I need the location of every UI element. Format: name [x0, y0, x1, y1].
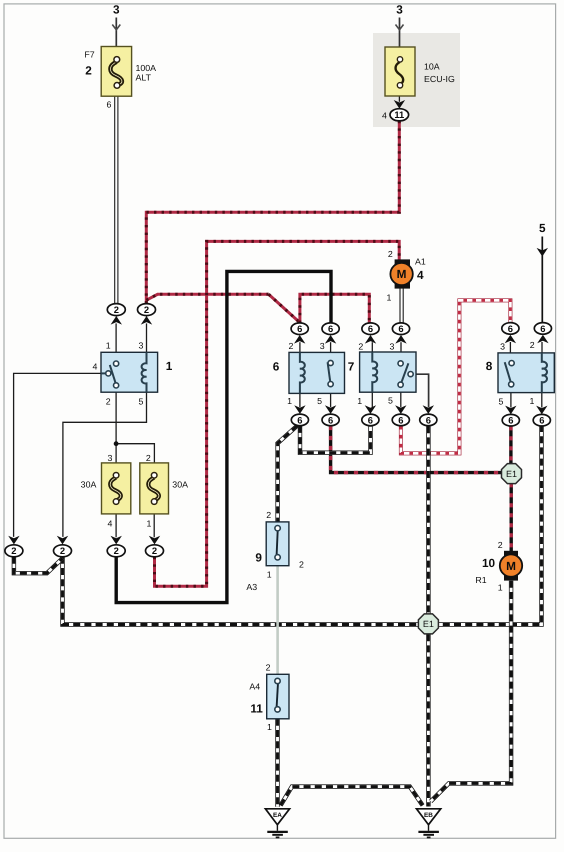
wire: 30A fuse internal stems	[115, 463, 117, 473]
ground E1 (upper)	[502, 464, 522, 484]
wire: black-white dashed between relay 6 and relay 7 connectors	[300, 426, 371, 453]
wire: feed 3 into fuse ECU-IG	[399, 18, 401, 48]
arrow into connector 11	[394, 100, 405, 109]
svg-text:E1: E1	[423, 619, 434, 629]
connector 6 above relay 8 pin 2	[534, 323, 551, 344]
svg-text:1: 1	[267, 722, 272, 732]
connector 6 below relay 8 pin 5	[502, 406, 519, 426]
svg-text:1: 1	[529, 396, 534, 406]
svg-text:3: 3	[500, 341, 505, 351]
fuse F7 (100A ALT)	[101, 47, 131, 97]
svg-text:3: 3	[396, 3, 403, 17]
wire: black-white dashed from switch A4 pin 1 to ground EA	[277, 719, 279, 807]
connector 6 below relay 7 side pin	[420, 405, 437, 425]
wire: relay 1 pin 5 to connector 2	[63, 392, 147, 537]
wire: red-white striped from relay 7 connector to relay 8 connector	[401, 300, 511, 453]
wire: black from 30A fuse connector 2 to relay 6 connector 6	[116, 271, 331, 602]
wire: relay 1 pin 2 to 30A fuses	[115, 392, 117, 463]
wire: black-white dashed link between connectors 2	[14, 557, 63, 573]
svg-text:1: 1	[146, 518, 151, 528]
svg-text:5: 5	[539, 221, 546, 235]
relay 7	[360, 352, 416, 392]
svg-text:A3: A3	[246, 582, 257, 592]
svg-text:EA: EA	[273, 812, 282, 819]
wire: relay internal pin stubs	[115, 352, 117, 361]
connector 6 below relay 6 pin 1	[291, 405, 308, 425]
wire: relay 6 pin stems	[299, 342, 301, 352]
svg-text:6: 6	[540, 323, 545, 334]
ground E1 (lower)	[418, 614, 438, 634]
relay 1	[101, 352, 158, 392]
svg-text:3: 3	[390, 341, 395, 351]
svg-text:2: 2	[11, 545, 16, 556]
connector 2 above relay 1 pin 1	[107, 304, 125, 325]
svg-text:6: 6	[297, 414, 302, 425]
connector 6 below relay 8 pin 1	[533, 406, 550, 426]
svg-text:6: 6	[368, 414, 373, 425]
svg-text:6: 6	[508, 415, 513, 426]
wire: black-white dashed from relay 6 connector to switch A3 pin 2	[278, 426, 298, 522]
connector 11	[390, 109, 409, 121]
wire: relay 7 side pin to connector 6	[413, 374, 428, 407]
wire: fuse F7 internal stems	[116, 47, 118, 58]
svg-text:5: 5	[498, 396, 503, 406]
svg-text:2: 2	[114, 304, 119, 315]
svg-text:2: 2	[358, 341, 363, 351]
arrow feed 3 F7	[112, 25, 120, 30]
svg-text:E1: E1	[506, 469, 517, 479]
svg-text:3: 3	[320, 341, 325, 351]
motor R1 (10)	[500, 551, 522, 581]
svg-text:2: 2	[85, 64, 92, 78]
arrow feed 5	[537, 248, 548, 257]
motor A1 (4)	[390, 259, 412, 288]
svg-text:4: 4	[108, 518, 113, 528]
30A fuse right	[140, 463, 169, 514]
wire: black-white dashed from relay 7 side connector down to ground E1	[427, 426, 429, 613]
svg-text:5: 5	[139, 396, 144, 406]
wire: red from fuse ECU-IG connector 11 to connector 2 above relay 1	[146, 121, 399, 304]
svg-text:1: 1	[498, 582, 503, 592]
svg-text:EB: EB	[424, 812, 433, 819]
svg-text:ALT: ALT	[136, 72, 152, 82]
wire: black-white dashed link from ground EA to ground EB	[281, 787, 423, 806]
wire: fuse ECU-IG to connector 11	[398, 96, 400, 102]
switch A3 (9)	[266, 522, 289, 566]
svg-text:4: 4	[382, 110, 387, 120]
junction	[114, 441, 119, 446]
wire: relay 7 pin stems	[371, 342, 373, 352]
svg-text:11: 11	[394, 109, 404, 120]
svg-text:1: 1	[357, 396, 362, 406]
svg-text:5: 5	[317, 396, 322, 406]
wire: fuse ECU-IG internal stems	[399, 47, 401, 57]
svg-text:3: 3	[108, 453, 113, 463]
svg-text:6: 6	[328, 323, 333, 334]
svg-text:30A: 30A	[81, 480, 97, 490]
arrow feed 3 ECU-IG	[396, 25, 404, 30]
switch A4 (11)	[267, 674, 289, 719]
connector 2 (below 30A right)	[146, 536, 164, 557]
wire: relay 1 pin stems to connectors 2	[115, 323, 117, 352]
svg-text:10A: 10A	[424, 62, 440, 72]
wire: 30A fuse stems to connectors 2	[115, 514, 117, 537]
svg-text:2: 2	[498, 540, 503, 550]
svg-text:2: 2	[114, 545, 119, 556]
wire: white wire from motor A1 pin 1 to connector 6	[400, 288, 403, 323]
connector 6 above relay 7 pin 3	[392, 323, 409, 344]
wire: relay 8 pin stems	[509, 342, 511, 353]
svg-text:6: 6	[398, 323, 403, 334]
svg-text:2: 2	[266, 663, 271, 673]
svg-text:F7: F7	[84, 50, 94, 60]
ground EB	[417, 809, 441, 838]
connector 2 (below 30A left)	[107, 536, 125, 557]
wire: red branch to relay 6 and relay 7 coil connectors	[146, 294, 369, 323]
svg-text:6: 6	[107, 99, 112, 109]
svg-text:3: 3	[113, 3, 120, 17]
svg-text:4: 4	[93, 361, 98, 371]
svg-text:3: 3	[139, 340, 144, 350]
svg-text:6: 6	[297, 323, 302, 334]
relay 6	[289, 352, 345, 393]
svg-text:2: 2	[146, 453, 151, 463]
connector 2 (far left)	[5, 536, 23, 557]
connector 6 above relay 6 pin 3	[322, 323, 339, 344]
wire: black-white dashed from motor R1 pin 1 to ground EB	[431, 581, 511, 802]
svg-text:7: 7	[348, 359, 355, 373]
svg-text:M: M	[397, 267, 407, 281]
svg-text:6: 6	[328, 414, 333, 425]
connector 6 below relay 7 pin 5	[392, 405, 409, 425]
wire: relay 1 pin 4 to connector 2	[14, 373, 106, 537]
svg-text:1: 1	[106, 340, 111, 350]
svg-text:M: M	[506, 559, 516, 573]
svg-text:ECU-IG: ECU-IG	[424, 74, 455, 84]
svg-text:A1: A1	[415, 256, 426, 266]
connector 6 above relay 8 pin 3	[502, 323, 519, 344]
svg-text:9: 9	[255, 551, 262, 565]
wire: black-white dashed ground run from connector 2 to relay 8 connector 6	[63, 427, 542, 625]
connector 6 above relay 6 pin 2	[291, 323, 308, 344]
svg-text:2: 2	[530, 340, 535, 350]
svg-text:6: 6	[273, 359, 280, 373]
wire: feed 3 into fuse F7	[115, 18, 117, 47]
svg-text:30A: 30A	[172, 480, 188, 490]
wire: red-black striped from ground E1 to motor R1 pin 2	[510, 483, 512, 551]
svg-text:2: 2	[299, 560, 304, 570]
wire: pale from switch A3 pin 1 to switch A4 pin 2	[276, 566, 279, 675]
connector 6 above relay 7 pin 2	[362, 323, 379, 344]
svg-text:2: 2	[388, 249, 393, 259]
svg-text:1: 1	[166, 359, 173, 373]
svg-text:1: 1	[287, 396, 292, 406]
svg-text:8: 8	[486, 359, 493, 373]
svg-text:10: 10	[482, 556, 496, 570]
wire: white wire from fuse F7 to connector 2	[115, 96, 118, 305]
shaded box around fuse ECU-IG	[373, 33, 460, 127]
svg-text:1: 1	[387, 292, 392, 302]
svg-text:6: 6	[426, 414, 431, 425]
wire: red from 30A fuse connector 2 to motor A1 pin 2	[155, 241, 400, 586]
wire: black-white dashed from ground E1 to ground EB	[427, 634, 429, 806]
svg-text:2: 2	[266, 510, 271, 520]
ground EA	[265, 809, 289, 838]
svg-text:2: 2	[106, 396, 111, 406]
svg-text:2: 2	[144, 304, 149, 315]
svg-text:6: 6	[398, 414, 403, 425]
svg-text:A4: A4	[249, 681, 260, 691]
relay 8	[498, 353, 554, 393]
connector 6 below relay 7 pin 1	[362, 405, 379, 425]
svg-text:2: 2	[152, 545, 157, 556]
wire: red-black striped from relay 8 connector to ground E1	[510, 426, 512, 464]
svg-text:6: 6	[508, 323, 513, 334]
connector 2 above relay 1 pin 3	[138, 304, 156, 325]
svg-text:6: 6	[368, 323, 373, 334]
connector 2 (left)	[54, 536, 72, 557]
connector 6 below relay 6 pin 5	[322, 405, 339, 425]
30A fuse left	[102, 463, 131, 514]
svg-text:6: 6	[539, 415, 544, 426]
fuse ECU-IG (10A)	[385, 47, 415, 96]
svg-text:2: 2	[288, 341, 293, 351]
svg-text:1: 1	[267, 569, 272, 579]
wire: red-black striped from relay 6 connector to ground E1	[331, 426, 502, 473]
svg-text:2: 2	[60, 545, 65, 556]
svg-text:4: 4	[417, 268, 424, 282]
svg-text:5: 5	[388, 396, 393, 406]
wire: black feed 5 to relay 8 coil connector 6	[541, 237, 543, 323]
svg-text:R1: R1	[475, 575, 486, 585]
svg-text:11: 11	[250, 702, 263, 716]
